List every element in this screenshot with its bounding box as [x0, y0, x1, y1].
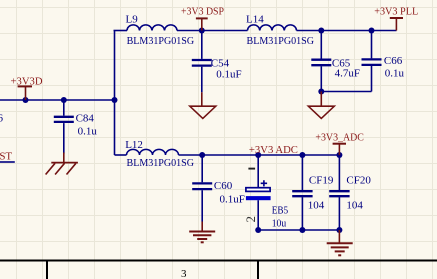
svg-text:L14: L14 — [246, 13, 264, 25]
svg-text:CF19: CF19 — [309, 174, 334, 186]
svg-text:104: 104 — [346, 199, 363, 211]
svg-text:104: 104 — [308, 199, 325, 211]
svg-text:+3V3 DSP: +3V3 DSP — [181, 5, 224, 17]
svg-text:BLM31PG01SG: BLM31PG01SG — [127, 35, 195, 47]
capacitor CF20 104 — [329, 191, 349, 196]
capacitor C60 0.1uF — [192, 183, 212, 189]
capacitor C54 0.1uF — [192, 60, 212, 66]
capacitor C66 0.1u — [362, 59, 382, 65]
node junction EB5 bottom — [255, 227, 261, 233]
node junction C60 top — [199, 152, 205, 158]
svg-text:+3V3 ADC: +3V3 ADC — [249, 144, 298, 156]
ground bars under C60 — [189, 222, 215, 243]
svg-text:0.1uF: 0.1uF — [216, 68, 241, 80]
capacitor EB5 10u electrolytic — [246, 180, 271, 200]
svg-text:3: 3 — [181, 268, 187, 279]
wire EB5 stem upper — [257, 155, 259, 188]
wire C60 stem upper — [201, 155, 203, 182]
svg-text:+3V3D: +3V3D — [11, 76, 43, 88]
node junction CF19 bottom — [299, 227, 305, 233]
wire EB5 stem lower — [257, 200, 259, 230]
svg-text:CF20: CF20 — [346, 174, 371, 186]
inductor L14 — [247, 25, 296, 31]
svg-text:L9: L9 — [126, 13, 139, 25]
svg-text:4.7uF: 4.7uF — [335, 67, 360, 79]
node junction EB5 top — [255, 152, 261, 158]
inductor L12 — [127, 149, 179, 155]
node junction ADC port / CF20 top — [336, 152, 342, 158]
wire C65 stem upper — [320, 31, 322, 59]
svg-text:EB5: EB5 — [272, 205, 289, 217]
svg-text:+3V3 PLL: +3V3 PLL — [374, 6, 418, 18]
wire L12 left lead — [115, 154, 127, 156]
capacitor C84 0.1u — [54, 117, 74, 122]
wire C54 stem upper — [201, 31, 203, 59]
wire C66 stem lower — [371, 66, 373, 92]
node junction +3V3D stem on bus — [23, 97, 29, 103]
ground bars under CF20 — [327, 230, 353, 255]
ground triangle under C65 — [308, 92, 334, 119]
wire L9 right to L14 left — [177, 30, 248, 32]
wire L12 right rail to ADC port — [179, 154, 340, 156]
svg-text:BLM31PG01SG: BLM31PG01SG — [127, 157, 195, 169]
capacitor C65 4.7uF — [311, 60, 331, 65]
power +3V3D — [18, 86, 32, 100]
ground earth under C84 — [46, 153, 78, 175]
wire vertical L9-L12 column — [114, 31, 116, 156]
svg-text:ST: ST — [0, 151, 12, 163]
svg-text:+3V3_ADC: +3V3_ADC — [315, 132, 364, 144]
node junction DSP rail / C54 — [199, 28, 205, 34]
svg-text:6: 6 — [0, 112, 4, 124]
wire C65-C66 bottom link — [321, 91, 371, 93]
svg-text:L12: L12 — [125, 139, 143, 151]
svg-text:2: 2 — [243, 216, 258, 223]
wire CF20 stem upper — [338, 155, 340, 190]
wire C84 stem lower — [63, 123, 65, 153]
wire EB5-CF20 bottom rail — [258, 229, 339, 231]
ground triangle under C54 — [190, 92, 216, 118]
capacitor CF19 104 — [292, 191, 312, 196]
node junction C65 bottom / gnd — [318, 89, 324, 95]
svg-text:0.1uF: 0.1uF — [220, 194, 245, 206]
power +3V3 DSP — [196, 18, 208, 30]
wire C65 stem lower — [320, 66, 322, 91]
node junction C84 on bus — [61, 97, 67, 103]
svg-text:10u: 10u — [272, 217, 287, 229]
node junction C65 top — [318, 28, 324, 34]
wire CF19 stem lower — [301, 197, 303, 230]
svg-text:C60: C60 — [214, 180, 233, 192]
svg-text:C66: C66 — [384, 55, 403, 67]
svg-text:C84: C84 — [76, 113, 95, 125]
wire main bus left — [0, 99, 115, 101]
wire L9 left lead — [114, 30, 128, 32]
power +3V3 PLL — [390, 18, 403, 31]
svg-text:BLM31PG01SG: BLM31PG01SG — [247, 35, 315, 47]
power +3V3_ADC — [333, 144, 346, 155]
wire stub at left edge (RST net) — [0, 161, 15, 163]
node junction CF20 bottom / gnd — [336, 227, 342, 233]
wire CF19 stem upper — [301, 155, 303, 190]
pin 1 of EB5 — [248, 168, 255, 170]
inductor L9 — [127, 25, 177, 31]
svg-text:0.1u: 0.1u — [78, 126, 98, 138]
wire L14 right to PLL — [297, 30, 397, 32]
node junction bus/vertical column — [112, 97, 118, 103]
wire C84 stem upper — [63, 100, 65, 116]
wire C60 stem lower — [201, 190, 203, 221]
node junction CF19 top — [299, 152, 305, 158]
svg-text:0.1u: 0.1u — [385, 68, 405, 80]
node junction C66 top — [369, 28, 375, 34]
wire CF20 stem lower — [338, 197, 340, 230]
wire C54 stem lower — [201, 67, 203, 93]
wire C66 stem upper — [371, 31, 373, 59]
